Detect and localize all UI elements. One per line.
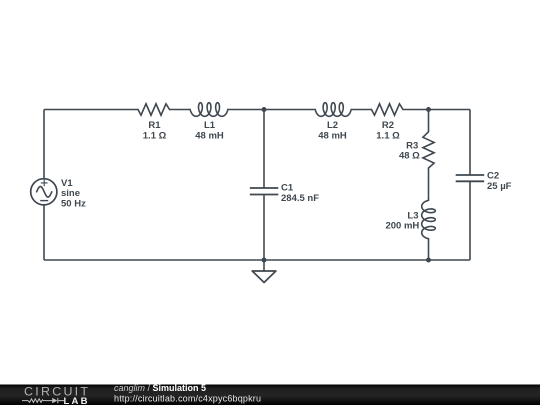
- node B junction dot: [426, 107, 431, 112]
- wire middle branch upper (node A to C1): [263, 110, 265, 189]
- svg-text:48 mH: 48 mH: [195, 130, 224, 141]
- svg-text:48 mH: 48 mH: [318, 130, 347, 141]
- inductor L2: [315, 103, 351, 117]
- capacitor C1: [250, 188, 278, 195]
- capacitor C2: [456, 175, 485, 181]
- wire left branch upper (V1 top lead): [43, 110, 45, 179]
- label L2 48 mH: [318, 120, 347, 141]
- wire right branch upper (top to C2): [469, 110, 471, 176]
- resistor R1: [138, 104, 170, 115]
- footer bar: [0, 385, 540, 405]
- wire top-left segment: [44, 109, 138, 111]
- wire L3 to bottom rail: [428, 239, 430, 260]
- inductor L1: [190, 103, 228, 117]
- label R3 48 &#937;: [399, 140, 420, 161]
- svg-text:48 Ω: 48 Ω: [399, 151, 420, 162]
- svg-text:25 µF: 25 µF: [487, 181, 512, 192]
- label C2 25 &#181;F: [487, 170, 512, 191]
- wire between R1 and L1: [170, 109, 191, 111]
- wire R2 to top-right corner: [403, 109, 470, 111]
- wire R3 to L3: [428, 168, 430, 200]
- svg-text:C1: C1: [281, 182, 294, 193]
- svg-text:C2: C2: [487, 170, 499, 181]
- ground: [252, 260, 276, 283]
- svg-text:LAB: LAB: [64, 396, 88, 405]
- inductor L3: [422, 200, 436, 238]
- label L1 48 mH: [195, 120, 224, 141]
- wire bottom rail: [44, 259, 470, 261]
- svg-text:1.1 Ω: 1.1 Ω: [376, 130, 400, 141]
- label R2 1.1 &#937;: [376, 120, 400, 141]
- node A junction dot: [262, 107, 267, 112]
- resistor R3: [423, 132, 434, 168]
- svg-text:284.5 nF: 284.5 nF: [281, 193, 319, 204]
- wire left branch lower (V1 bottom lead): [43, 205, 45, 260]
- svg-text:50 Hz: 50 Hz: [61, 198, 86, 209]
- wire middle branch lower (C1 to bottom rail): [263, 195, 265, 261]
- label C1 284.5 nF: [281, 182, 319, 203]
- svg-text:canglim / Simulation 5: canglim / Simulation 5: [114, 383, 206, 393]
- label R1 1.1 &#937;: [143, 120, 167, 141]
- wire right branch lower (C2 to bottom rail): [469, 181, 471, 260]
- voltage source V1: [31, 179, 57, 205]
- node C junction dot (L3 to bottom rail): [426, 258, 431, 263]
- label L3 200 mH: [385, 210, 419, 231]
- label V1 sine 50 Hz: [61, 178, 86, 210]
- wire between L1 and L2 (through node A): [228, 109, 315, 111]
- svg-text:1.1 Ω: 1.1 Ω: [143, 130, 167, 141]
- resistor R2: [372, 104, 404, 115]
- wire node B to R3: [428, 110, 430, 132]
- svg-text:200 mH: 200 mH: [385, 221, 419, 232]
- wire between L2 and R2: [351, 109, 371, 111]
- ground junction dot on bottom rail: [262, 258, 267, 263]
- svg-text:http://circuitlab.com/c4xpyc6b: http://circuitlab.com/c4xpyc6bqpkru: [114, 393, 261, 403]
- CircuitLab logo circuit glyph: lead wire, resistor zigzag, wire, diode, wire: [22, 398, 64, 403]
